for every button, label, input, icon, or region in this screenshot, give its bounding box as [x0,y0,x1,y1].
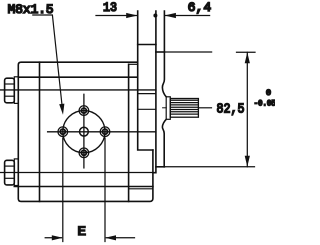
M8x1.5 leader arrowhead [59,104,64,115]
rear right edge vertical [128,64,130,201]
side profile left edge [138,11,153,150]
plug P2 collar [14,159,18,186]
bolt pattern horizontal centerline [48,131,156,133]
bolt hole right [100,127,110,137]
bearing housing line a [138,93,156,95]
dimension 82,5 extension top [164,52,255,167]
M8x1.5 leader line [33,15,62,105]
spline block outline [170,99,198,118]
bolt hole bottom [79,148,89,158]
bolt hole top [79,106,89,116]
body inner vertical line [39,62,41,201]
plug P1 facet lines [5,83,14,85]
spline lines [171,100,199,114]
bolt circle [63,111,105,153]
side flange face line [153,11,156,173]
dimension 6,4 arrow [164,13,176,18]
pump bottom-right edge [156,166,165,168]
dimension E extension left [45,138,134,242]
dimension 13 line and arrow [96,15,210,17]
dimension E arrow left-pointing [105,235,116,240]
port 1 centerline [1,89,156,91]
plug P1 hex head [5,78,15,103]
bottom neck curve to lower edge [162,119,166,167]
plug P1 collar [14,77,18,104]
svg-text:82,5: 82,5 [217,102,245,118]
svg-text:13: 13 [103,0,117,15]
svg-text:0: 0 [266,89,271,98]
svg-text:-0.05: -0.05 [254,100,275,109]
dimension 82,5 arrow up [245,52,250,63]
body seam line lower [14,186,153,188]
pump top-right edge [156,51,165,53]
shaft centerline stub right [198,107,211,109]
shaft centerline stub left [163,107,167,109]
small step line top right [129,63,138,65]
svg-text:6,4: 6,4 [188,0,212,15]
dimension E tails [45,237,61,239]
dimension E extension right [104,138,106,242]
bolt hole left [58,127,68,137]
bearing housing line b [138,108,156,110]
center pilot hole [80,127,89,136]
dimension dot at 13/6,4 boundary [153,14,157,18]
dimension 82,5 arrow down [245,156,250,167]
side top edge to neck [162,11,166,97]
pump body outline (front face) [18,62,153,201]
side cap top [138,44,156,46]
body seam line upper [18,76,137,78]
port 2 centerline [1,172,153,174]
svg-text:E: E [78,224,87,239]
dimension 82,5 line [246,52,248,167]
dimension E arrow right-pointing [52,235,63,240]
plug P2 facet lines [5,165,14,167]
dimension 82,5 extension bottom [164,166,254,168]
plug P2 hex head [5,160,15,185]
shaft collar [166,97,170,120]
bolt pattern vertical centerline [83,94,85,168]
short seam line bottom right [129,188,153,190]
